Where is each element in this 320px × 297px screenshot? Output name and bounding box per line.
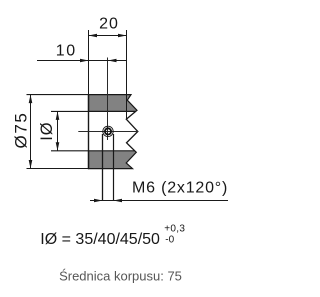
dimension 20: line xyxy=(89,35,127,37)
svg-text:M6 (2x120°): M6 (2x120°) xyxy=(132,179,228,196)
IØ: dimension line xyxy=(57,111,59,150)
dimension 20: right arrow xyxy=(118,34,127,38)
svg-text:10: 10 xyxy=(56,42,77,59)
M6 hole right edge line xyxy=(113,134,115,201)
horizontal centerline xyxy=(78,131,138,133)
IØ: top arrow xyxy=(56,111,60,120)
M6 leader line xyxy=(90,200,228,202)
svg-text:Średnica korpusu: 75: Średnica korpusu: 75 xyxy=(59,268,182,283)
M6 hole left edge line xyxy=(102,134,104,201)
IØ: bottom arrow xyxy=(56,142,60,151)
dimension 10: line xyxy=(37,60,126,62)
vertical centerline of M6 hole xyxy=(107,58,109,141)
extension line right (x=126.4) xyxy=(126,30,128,119)
svg-text:Ø75: Ø75 xyxy=(11,112,30,149)
body section: top wall (hatch-gray) xyxy=(89,95,138,112)
body left edge xyxy=(88,94,90,169)
Ø75: bottom arrow xyxy=(29,160,33,169)
svg-text:IØ = 35/40/45/50: IØ = 35/40/45/50 xyxy=(40,231,160,248)
IØ: top extension line xyxy=(51,110,89,112)
Ø75: top arrow xyxy=(29,95,33,104)
svg-text:20: 20 xyxy=(99,16,119,33)
broken-edge zigzag (bore region) xyxy=(126,111,138,150)
svg-text:-0: -0 xyxy=(165,235,174,246)
IØ: bottom extension line xyxy=(51,150,89,152)
M6 leader: right arrow xyxy=(114,199,123,203)
body section: bottom wall (hatch-gray) xyxy=(89,151,137,169)
M6 leader: left arrow xyxy=(94,199,103,203)
dimension 10: right arrow (outside, tip at centerline) xyxy=(108,59,117,63)
extension line left (x=88.5) xyxy=(88,30,90,95)
svg-text:+0,3: +0,3 xyxy=(164,224,185,235)
svg-text:IØ: IØ xyxy=(38,121,56,140)
Ø75: dimension line xyxy=(30,95,32,169)
Ø75: bottom extension line xyxy=(27,168,89,170)
dimension 10: left arrow (outside, tip at body edge) xyxy=(80,59,89,63)
Ø75: top extension line xyxy=(27,94,89,96)
M6 tapped hole: outer thread circle xyxy=(103,126,113,136)
M6 tapped hole: inner circle (thick) xyxy=(105,128,111,134)
dimension 20: left arrow xyxy=(89,34,98,38)
